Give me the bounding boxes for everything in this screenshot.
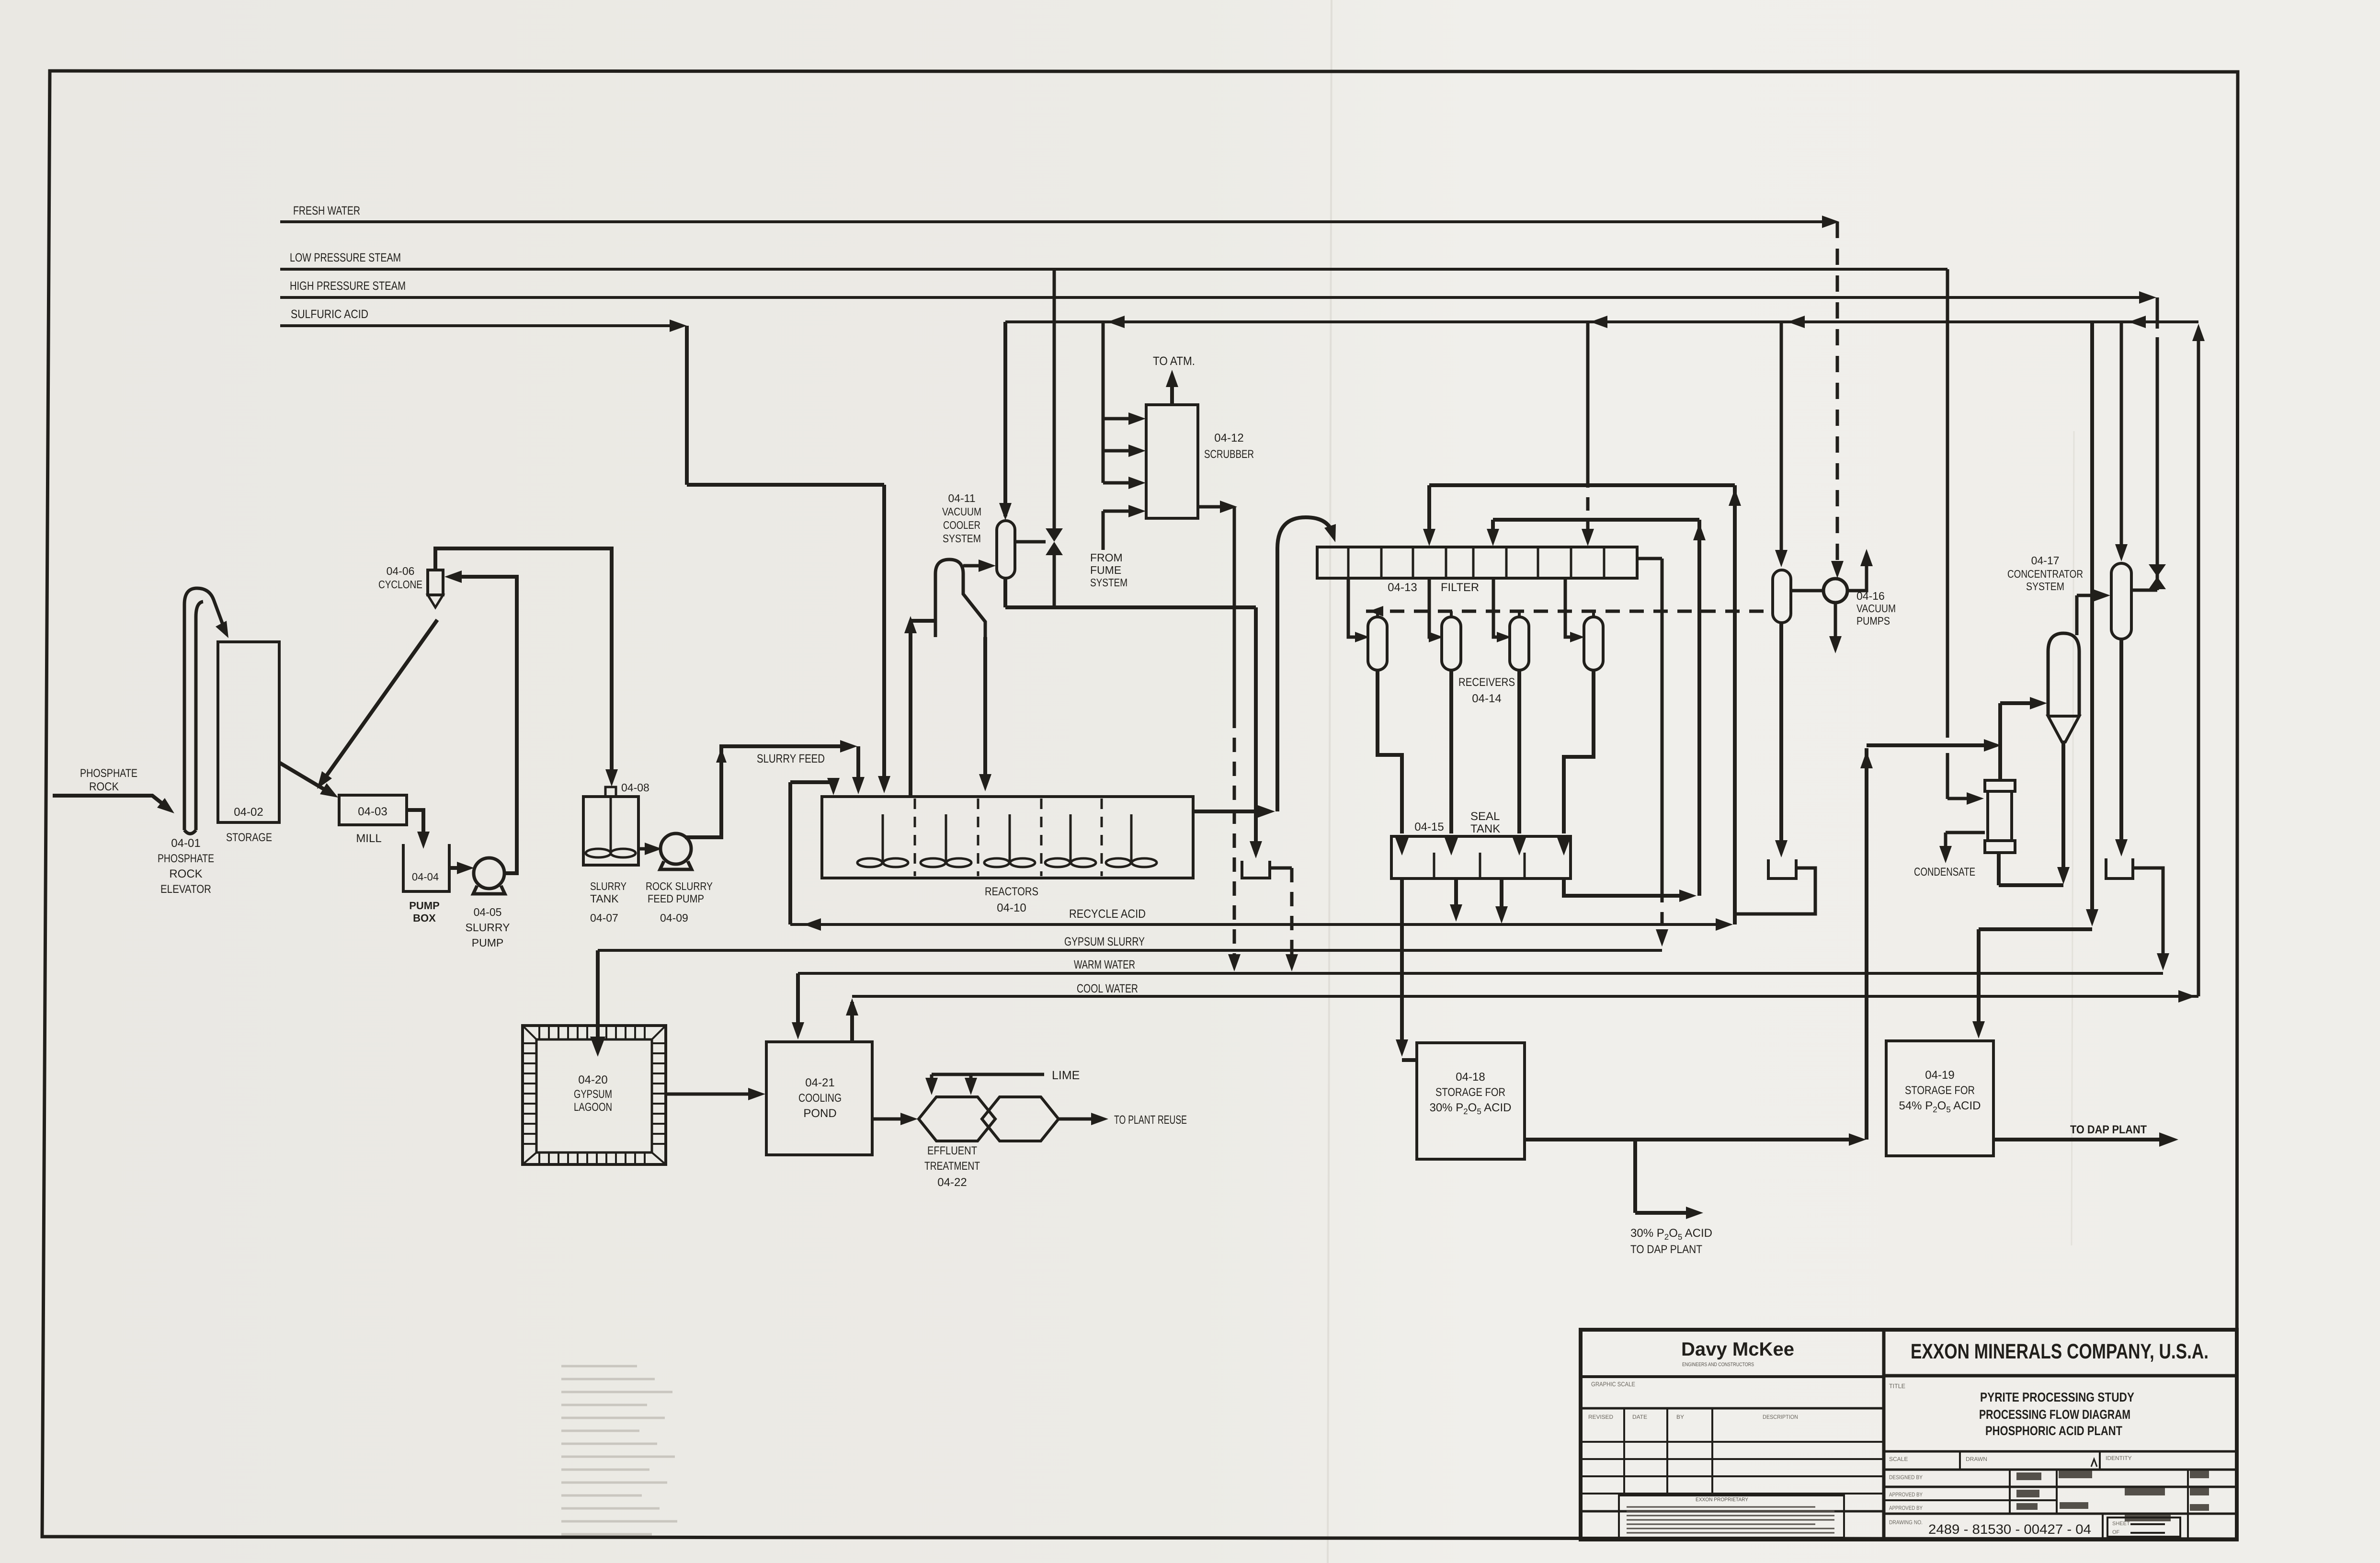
wire from fume system into scrubber <box>1103 505 1146 550</box>
svg-text:POND: POND <box>803 1107 836 1120</box>
label 04-05 SLURRY PUMP <box>466 906 510 949</box>
vessel 04-12 scrubber <box>1146 405 1198 518</box>
svg-text:SCALE: SCALE <box>1889 1456 1908 1462</box>
wire flash cooler slurry return to reactor <box>979 637 991 791</box>
svg-text:IDENTITY: IDENTITY <box>2106 1455 2132 1461</box>
svg-text:FEED PUMP: FEED PUMP <box>648 892 704 905</box>
svg-text:04-08: 04-08 <box>621 781 649 794</box>
label EFFLUENT TREATMENT 04-22 <box>924 1144 980 1189</box>
svg-text:04-14: 04-14 <box>1472 692 1501 705</box>
wire receiver barometric legs to seal tank <box>1378 670 1594 856</box>
svg-text:PROCESSING FLOW DIAGRAM: PROCESSING FLOW DIAGRAM <box>1979 1407 2130 1422</box>
faint copy streaks left of title block <box>561 1366 677 1534</box>
elevator 04-01 phosphate rock elevator <box>184 588 228 834</box>
svg-text:COOLER: COOLER <box>943 519 980 531</box>
svg-text:DESCRIPTION: DESCRIPTION <box>1763 1414 1798 1420</box>
svg-text:04-17: 04-17 <box>2031 554 2060 567</box>
label RECEIVERS 04-14 <box>1458 676 1515 705</box>
svg-text:FUME: FUME <box>1090 564 1121 576</box>
wire pump box to slurry pump <box>449 862 474 874</box>
wire condenser seal pot overflow to warm water <box>2133 868 2169 970</box>
svg-text:04-05: 04-05 <box>474 906 502 918</box>
svg-text:04-01: 04-01 <box>171 837 200 850</box>
revision table <box>1581 1408 1884 1511</box>
valve LP steam ejector valve <box>1015 269 1063 607</box>
svg-text:SYSTEM: SYSTEM <box>943 532 981 545</box>
wire vacuum seal pot overflow <box>1735 868 1815 914</box>
wire cyclone underflow to mill <box>317 620 437 789</box>
wire storage to mill <box>279 763 338 798</box>
wire cyclone overhead to slurry tank <box>435 548 618 787</box>
svg-text:HIGH PRESSURE STEAM: HIGH PRESSURE STEAM <box>290 279 406 293</box>
wire LP steam into heater E-1 <box>1947 792 1984 805</box>
wire concentrator vapor to condenser <box>2077 589 2110 635</box>
wire filter cake discharge to gypsum slurry (dashed) <box>1637 559 1668 947</box>
svg-text:COOL WATER: COOL WATER <box>1077 982 1138 995</box>
wire condenser tailpipe to seal pot <box>1005 578 1262 858</box>
svg-text:FILTER: FILTER <box>1441 581 1479 594</box>
vessel barometric condenser pill <box>2111 563 2131 639</box>
svg-text:RECYCLE ACID: RECYCLE ACID <box>1069 907 1146 921</box>
svg-text:SLURRY FEED: SLURRY FEED <box>757 752 825 765</box>
cyclone 04-06 <box>428 570 443 607</box>
wire fresh water drop (dashed) to vacuum pump 04-16 <box>1831 222 1844 578</box>
svg-text:TANK: TANK <box>590 892 619 905</box>
vessel concentrator flash body <box>2048 633 2079 742</box>
svg-text:TREATMENT: TREATMENT <box>924 1160 980 1173</box>
svg-text:LIME: LIME <box>1052 1069 1080 1082</box>
svg-text:STORAGE FOR: STORAGE FOR <box>1435 1086 1505 1099</box>
svg-text:DRAWN: DRAWN <box>1966 1456 1987 1462</box>
label ROCK SLURRY FEED PUMP 04-09 <box>646 880 713 924</box>
svg-text:VACUUM: VACUUM <box>942 505 981 518</box>
wire knockout pill barometric leg to seal pot <box>1775 623 1788 857</box>
wire cool water return header to coolers <box>1005 316 2198 328</box>
wire heater outlet to concentrator <box>2000 697 2047 780</box>
svg-text:APPROVED BY: APPROVED BY <box>1889 1505 1923 1511</box>
paper crease right <box>2072 431 2074 1245</box>
svg-text:RECEIVERS: RECEIVERS <box>1458 676 1515 689</box>
wire slurry feed line to reactors <box>685 740 865 837</box>
flash cooler body <box>935 559 985 637</box>
svg-text:04-11: 04-11 <box>948 492 975 504</box>
svg-text:04-20: 04-20 <box>578 1073 607 1086</box>
svg-text:PUMP: PUMP <box>472 936 503 949</box>
label 04-03 MILL <box>356 805 387 845</box>
svg-text:BOX: BOX <box>413 912 436 924</box>
svg-text:54% P2O5 ACID: 54% P2O5 ACID <box>1899 1099 1981 1114</box>
wire seal tank outlets to recycle acid line <box>1450 878 1508 924</box>
tank 04-19 storage for 54% P2O5 acid <box>1886 1041 1993 1156</box>
svg-text:GRAPHIC SCALE: GRAPHIC SCALE <box>1591 1380 1635 1388</box>
wire vacuum pump drain <box>1829 603 1842 653</box>
svg-text:04-10: 04-10 <box>997 901 1026 914</box>
treatment cells 04-22 (two hexagons) <box>919 1097 1059 1141</box>
wire warm water drop to cooling pond <box>792 973 804 1039</box>
wire cool water drop to barometric condenser <box>2115 322 2128 561</box>
pump box 04-04 <box>403 844 449 891</box>
svg-text:REVISED: REVISED <box>1588 1414 1613 1420</box>
wire condenser tailpipe to seal pot <box>2115 639 2128 856</box>
svg-text:TO DAP PLANT: TO DAP PLANT <box>2070 1123 2147 1136</box>
wire reactor discharge to filter hook <box>1193 517 1336 818</box>
svg-text:30% P2O5 ACID: 30% P2O5 ACID <box>1630 1227 1712 1242</box>
wire 54% acid TO DAP PLANT <box>1993 1132 2178 1147</box>
svg-text:EXXON MINERALS COMPANY, U.S.A.: EXXON MINERALS COMPANY, U.S.A. <box>1911 1340 2209 1363</box>
label 04-12 SCRUBBER <box>1204 432 1254 461</box>
wire filtrate wash no.1 (from seal tank riser) <box>1423 485 1741 924</box>
svg-text:30% P2O5 ACID: 30% P2O5 ACID <box>1429 1101 1511 1116</box>
wire cool water line <box>852 995 2198 998</box>
svg-text:EFFLUENT: EFFLUENT <box>927 1144 977 1157</box>
svg-text:TO ATM.: TO ATM. <box>1153 354 1195 368</box>
svg-text:ROCK: ROCK <box>89 780 119 793</box>
label 04-21 COOLING POND <box>798 1076 842 1120</box>
svg-text:ELEVATOR: ELEVATOR <box>160 883 211 896</box>
wire cool water sprays into scrubber <box>1103 322 1146 489</box>
wire recycle acid return into reactor <box>790 778 840 931</box>
wire heater condensate drain <box>1939 833 1985 863</box>
svg-text:TO PLANT REUSE: TO PLANT REUSE <box>1114 1113 1187 1127</box>
svg-text:Davy McKee: Davy McKee <box>1681 1339 1794 1360</box>
vessel vacuum pump knockout pill <box>1773 322 1791 623</box>
wire cool water cake wash into filter (part dashed) <box>1582 322 1594 546</box>
svg-text:04-13: 04-13 <box>1388 581 1417 594</box>
svg-text:PYRITE PROCESSING STUDY: PYRITE PROCESSING STUDY <box>1980 1390 2134 1404</box>
title block signature smudges <box>2016 1471 2209 1521</box>
label 04-13 FILTER <box>1388 581 1479 594</box>
svg-text:LOW PRESSURE STEAM: LOW PRESSURE STEAM <box>290 251 401 264</box>
svg-text:EXXON PROPRIETARY: EXXON PROPRIETARY <box>1696 1497 1749 1503</box>
svg-text:04-15: 04-15 <box>1414 821 1444 833</box>
svg-text:04-21: 04-21 <box>805 1076 834 1089</box>
wire pond blowdown to effluent treatment <box>872 1113 918 1125</box>
title text PYRITE PROCESSING STUDY <box>1979 1390 2134 1438</box>
svg-text:04-03: 04-03 <box>358 805 387 818</box>
svg-text:SEAL: SEAL <box>1470 810 1500 823</box>
svg-text:COOLING: COOLING <box>798 1092 842 1105</box>
svg-text:APPROVED BY: APPROVED BY <box>1889 1491 1923 1498</box>
svg-text:04-22: 04-22 <box>937 1176 967 1189</box>
svg-text:DESIGNED BY: DESIGNED BY <box>1889 1474 1923 1481</box>
svg-text:SCRUBBER: SCRUBBER <box>1204 448 1254 461</box>
svg-text:SYSTEM: SYSTEM <box>1090 576 1127 589</box>
svg-text:PUMP: PUMP <box>409 900 440 912</box>
pump 04-16 vacuum pumps <box>1791 579 1847 603</box>
vessel vacuum cooler condenser pill <box>997 521 1015 578</box>
title block frame <box>1581 1330 2237 1540</box>
svg-text:OF: OF <box>2112 1529 2120 1535</box>
pump 04-09 rock slurry feed pump <box>660 833 692 869</box>
wire reactor vapor riser to flash cooler <box>904 616 935 797</box>
svg-text:SYSTEM: SYSTEM <box>2026 580 2064 593</box>
reactor train 04-10 <box>822 797 1193 878</box>
svg-text:CONDENSATE: CONDENSATE <box>1914 866 1975 878</box>
svg-text:04-09: 04-09 <box>660 912 688 924</box>
wire lagoon decant to cooling pond <box>666 1088 765 1100</box>
wire low pressure steam header <box>280 269 1947 799</box>
svg-text:CYCLONE: CYCLONE <box>378 578 422 591</box>
mill 04-03 <box>339 795 407 825</box>
svg-text:STORAGE FOR: STORAGE FOR <box>1905 1084 1975 1097</box>
wire seal tank overflow to wash riser no.2 <box>1564 878 1697 902</box>
label 04-11 VACUUM COOLER SYSTEM <box>942 492 981 545</box>
logo EXXON MINERALS COMPANY, U.S.A. <box>1884 1340 2237 1376</box>
svg-text:FRESH WATER: FRESH WATER <box>293 204 360 217</box>
svg-text:WARM WATER: WARM WATER <box>1074 958 1135 971</box>
wire treated effluent TO PLANT REUSE <box>1057 1113 1108 1125</box>
pond 04-21 cooling pond <box>766 1042 872 1155</box>
svg-text:DRAWING NO.: DRAWING NO. <box>1889 1519 1923 1526</box>
vessel 04-15 seal tank <box>1391 836 1571 878</box>
svg-text:ROCK: ROCK <box>169 867 202 880</box>
label REACTORS 04-10 <box>985 885 1038 914</box>
pump 04-05 slurry pump <box>473 858 505 894</box>
svg-text:GYPSUM SLURRY: GYPSUM SLURRY <box>1064 935 1145 948</box>
label 04-17 CONCENTRATOR SYSTEM <box>2007 554 2083 593</box>
wire cool water riser to return header <box>2178 324 2205 1003</box>
seal pot below barometric condenser <box>2106 858 2133 878</box>
vessel receivers 04-14 (four) <box>1368 617 1603 670</box>
wire cooling pond return riser to cool water <box>846 998 858 1042</box>
svg-text:PUMPS: PUMPS <box>1856 615 1890 627</box>
svg-text:SHEET: SHEET <box>2112 1521 2130 1527</box>
seal pot below vacuum pumps <box>1768 859 1796 878</box>
wire lime feed <box>925 1074 1044 1095</box>
svg-text:04-12: 04-12 <box>1214 432 1243 445</box>
svg-text:04-06: 04-06 <box>387 565 415 577</box>
pond 04-20 gypsum lagoon (hatched dike) <box>523 1026 666 1164</box>
svg-text:SLURRY: SLURRY <box>590 880 626 892</box>
svg-text:CONCENTRATOR: CONCENTRATOR <box>2007 568 2083 580</box>
wire slurry tank to feed pump <box>638 843 662 855</box>
arrow recycle acid to wash riser <box>1716 918 1733 931</box>
svg-text:04-18: 04-18 <box>1456 1071 1485 1084</box>
svg-text:TO DAP PLANT: TO DAP PLANT <box>1630 1243 1702 1256</box>
vessel 04-02 storage silo <box>218 642 279 822</box>
svg-text:04-02: 04-02 <box>234 806 263 819</box>
label 04-01 PHOSPHATE ROCK ELEVATOR <box>158 837 214 896</box>
label PHOSPHATE ROCK <box>80 767 137 793</box>
wire fresh water header <box>280 216 1839 228</box>
wire phosphate rock feed <box>53 796 174 813</box>
tank 04-18 storage for 30% P2O5 acid <box>1417 1043 1525 1159</box>
proprietary note box <box>1619 1495 1844 1538</box>
svg-text:PHOSPHATE: PHOSPHATE <box>80 767 137 780</box>
svg-text:FROM: FROM <box>1090 551 1123 564</box>
label 04-15 SEAL TANK <box>1414 810 1500 835</box>
wire filter drops to receivers <box>1348 578 1584 642</box>
wire seal pot overflow to warm water (dashed) <box>1270 868 1298 971</box>
wire vacuum header (dashed) receivers to vacuum pumps <box>1366 606 1773 617</box>
heater E-1 concentrator heat exchanger <box>1985 780 2015 853</box>
label 04-16 VACUUM PUMPS <box>1856 590 1896 627</box>
wire 30% acid transfer to concentrator feed riser <box>1525 739 2001 1146</box>
wire concentrator bottoms to heater (circulation) <box>1999 742 2070 885</box>
wire sulfuric acid header to reactors <box>280 319 890 793</box>
svg-text:04-04: 04-04 <box>412 871 439 883</box>
svg-text:PHOSPHORIC ACID PLANT: PHOSPHORIC ACID PLANT <box>1985 1424 2122 1438</box>
title block grid rows <box>1884 1451 2237 1540</box>
wire 30% acid offtake to DAP plant <box>1635 1140 1703 1219</box>
wire cool water drop into vacuum cooler <box>999 322 1012 520</box>
label 04-02 STORAGE <box>226 806 272 844</box>
vessel 04-07 slurry tank with agitator 04-08 <box>583 787 638 865</box>
label 04-18 STORAGE FOR 30% P2O5 ACID <box>1429 1071 1511 1116</box>
label 30% P2O5 ACID TO DAP PLANT <box>1630 1227 1712 1256</box>
wire slurry pump riser to cyclone <box>444 570 517 873</box>
svg-text:PHOSPHATE: PHOSPHATE <box>158 852 214 865</box>
wire scrubber liquor to warm water (dashed) <box>1198 501 1241 971</box>
svg-text:TANK: TANK <box>1470 822 1500 835</box>
wire high pressure steam header <box>280 291 2157 590</box>
svg-text:04-16: 04-16 <box>1856 590 1885 602</box>
label GRAPHIC SCALE <box>1581 1380 1884 1408</box>
label 04-20 GYPSUM LAGOON <box>574 1073 612 1114</box>
svg-text:04-07: 04-07 <box>590 912 618 924</box>
label 04-19 STORAGE FOR 54% P2O5 ACID <box>1899 1069 1981 1114</box>
svg-text:BY: BY <box>1676 1414 1684 1420</box>
wire gypsum slurry drop to lagoon <box>590 950 605 1057</box>
wire flash cooler vapor to condenser pill <box>963 559 996 572</box>
svg-text:STORAGE: STORAGE <box>226 831 272 844</box>
wire 54% acid product to storage 04-19 <box>1972 322 2098 1038</box>
svg-text:04-19: 04-19 <box>1925 1069 1954 1082</box>
sheet box <box>2107 1517 2180 1537</box>
svg-text:DATE: DATE <box>1632 1414 1647 1420</box>
label SLURRY TANK 04-07 <box>590 880 626 924</box>
svg-text:REACTORS: REACTORS <box>985 885 1038 898</box>
wire mill discharge to pump box <box>407 810 430 849</box>
wire gypsum slurry line <box>598 949 1662 952</box>
svg-text:VACUUM: VACUUM <box>1856 602 1896 615</box>
label 04-04 PUMP BOX <box>409 871 440 924</box>
wire filtrate wash no.2 (from seal tank riser) <box>1487 520 1706 896</box>
filter 04-13 pan filter <box>1317 547 1637 578</box>
svg-text:TITLE: TITLE <box>1889 1382 1905 1390</box>
seal pot below vacuum cooler <box>1242 861 1270 878</box>
label 04-06 CYCLONE <box>378 565 422 591</box>
logo Davy McKee <box>1581 1339 1884 1377</box>
svg-text:SLURRY: SLURRY <box>466 921 510 934</box>
svg-text:ROCK SLURRY: ROCK SLURRY <box>646 880 713 892</box>
svg-text:GYPSUM: GYPSUM <box>574 1088 612 1101</box>
svg-text:SULFURIC ACID: SULFURIC ACID <box>291 308 368 321</box>
wire recycle acid line <box>790 923 1723 926</box>
wire warm water line <box>798 972 2163 975</box>
svg-text:2489 - 81530 - 00427 - 04: 2489 - 81530 - 00427 - 04 <box>1928 1522 2091 1537</box>
svg-text:MILL: MILL <box>356 832 381 845</box>
label FROM FUME SYSTEM <box>1090 551 1127 589</box>
svg-text:ENGINEERS AND CONSTRUCTORS: ENGINEERS AND CONSTRUCTORS <box>1682 1362 1754 1368</box>
wire vacuum pump vent stub <box>1848 549 1873 591</box>
svg-text:LAGOON: LAGOON <box>574 1101 612 1114</box>
wire seal tank product drop to 30% acid storage <box>1396 878 1417 1060</box>
wire scrubber vent TO ATM. <box>1166 370 1178 405</box>
valve HP steam control valve <box>2131 564 2166 590</box>
paper fold crease <box>1328 0 1332 1563</box>
